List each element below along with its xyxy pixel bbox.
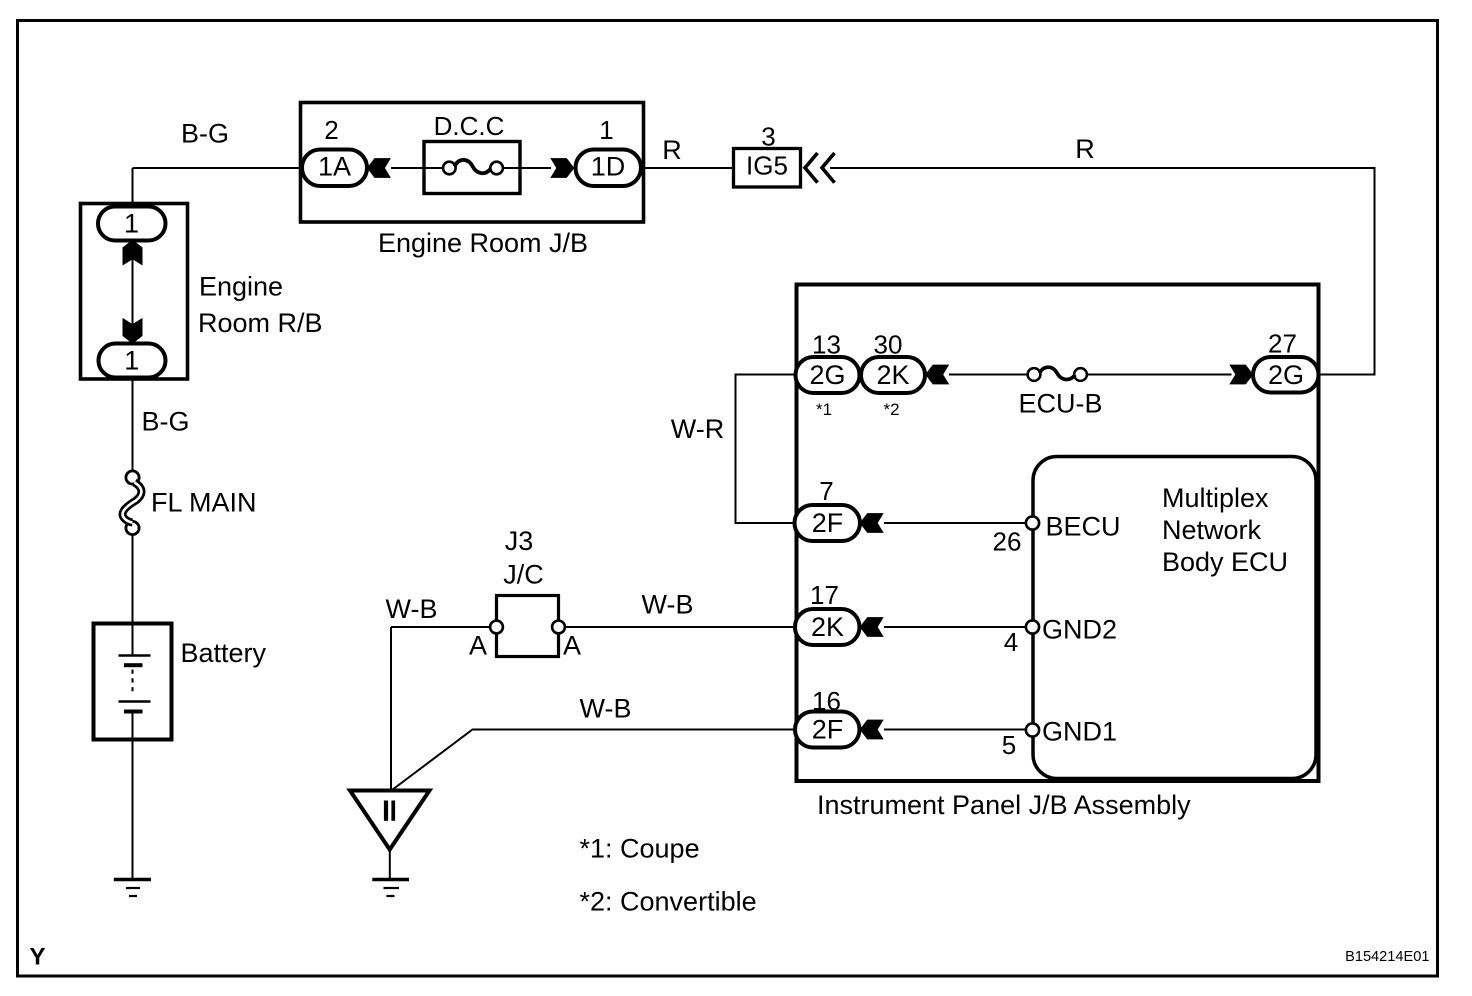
svg-text:1A: 1A xyxy=(318,152,351,182)
battery xyxy=(94,624,172,740)
ground symbol right xyxy=(372,880,409,897)
wire fuse to arrow xyxy=(1087,374,1232,376)
connector IG5 xyxy=(734,149,801,188)
wire 2K to GND2 xyxy=(884,626,1026,628)
svg-text:W-R: W-R xyxy=(671,414,725,444)
arrow up xyxy=(123,240,143,266)
wire B-G from R/B to FL MAIN xyxy=(132,377,134,471)
connector 1A xyxy=(302,150,367,187)
svg-text:Multiplex: Multiplex xyxy=(1162,483,1269,513)
wire from J/C down to ground triangle xyxy=(390,627,392,790)
svg-text:17: 17 xyxy=(810,580,839,610)
wire W-R from 2G to 2F xyxy=(736,375,797,524)
svg-text:*1: *1 xyxy=(816,400,832,419)
svg-text:Engine: Engine xyxy=(199,272,283,302)
wire battery to ground xyxy=(132,713,134,878)
wire 2F to GND1 xyxy=(884,729,1026,731)
svg-text:GND2: GND2 xyxy=(1042,615,1117,645)
svg-text:2F: 2F xyxy=(812,508,844,538)
arrow into 1A xyxy=(367,158,391,178)
svg-text:W-B: W-B xyxy=(386,594,438,624)
connector 1 top of R/B xyxy=(98,207,166,241)
arrow down xyxy=(123,318,143,344)
connector 1D xyxy=(576,150,642,187)
svg-text:A: A xyxy=(469,631,487,661)
wire to fuse ECU-B xyxy=(949,374,1028,376)
svg-text:1: 1 xyxy=(124,346,139,376)
svg-text:2K: 2K xyxy=(811,612,844,642)
wire fuse to arrow xyxy=(503,167,551,169)
Instrument Panel J/B box xyxy=(797,285,1319,782)
svg-text:Room R/B: Room R/B xyxy=(198,308,323,338)
pin GND1 xyxy=(1026,723,1039,736)
fusible link FL MAIN xyxy=(123,471,142,535)
svg-text:2F: 2F xyxy=(812,715,844,745)
svg-text:26: 26 xyxy=(993,527,1022,557)
svg-text:R: R xyxy=(1075,134,1095,164)
svg-text:2: 2 xyxy=(324,115,338,145)
wire W-B J/C to 2K xyxy=(565,626,796,628)
svg-text:Instrument Panel J/B Assembly: Instrument Panel J/B Assembly xyxy=(817,790,1191,820)
svg-text:*2: Convertible: *2: Convertible xyxy=(580,887,757,917)
arrow into 2G pin 27 xyxy=(1229,365,1253,385)
ground battery xyxy=(114,880,151,897)
wire 2F to BECU xyxy=(884,522,1026,524)
pin BECU xyxy=(1026,516,1039,529)
wire R from IG5 to 2G xyxy=(830,168,1375,375)
svg-text:A: A xyxy=(563,631,581,661)
wire inside R/B xyxy=(132,239,134,344)
wire FL MAIN to battery xyxy=(132,535,134,655)
svg-text:Engine Room J/B: Engine Room J/B xyxy=(378,228,588,258)
svg-text:FL MAIN: FL MAIN xyxy=(151,488,257,518)
wire vertical into Engine Room R/B xyxy=(132,168,134,208)
arrow out of 2K xyxy=(860,617,884,637)
junction connector J3 J/C xyxy=(490,596,565,657)
connector 2K pin 30 xyxy=(861,357,925,393)
chevrons at IG5 xyxy=(805,153,835,183)
Engine Room J/B box xyxy=(301,103,644,223)
wire W-B left to J/C xyxy=(391,626,490,628)
svg-text:IG5: IG5 xyxy=(746,151,788,181)
svg-text:J/C: J/C xyxy=(503,560,544,590)
svg-text:2G: 2G xyxy=(809,360,845,390)
svg-text:Body ECU: Body ECU xyxy=(1162,547,1288,577)
svg-text:W-B: W-B xyxy=(580,694,632,724)
connector 2F pin 16 xyxy=(795,712,860,748)
svg-text:Battery: Battery xyxy=(181,638,267,668)
svg-text:1: 1 xyxy=(599,115,613,145)
svg-text:B-G: B-G xyxy=(181,119,229,149)
wire triangle to ground xyxy=(389,849,391,878)
wire W-B from 2F to ground triangle xyxy=(392,730,796,791)
svg-text:J3: J3 xyxy=(505,526,534,556)
svg-text:B154214E01: B154214E01 xyxy=(1345,949,1429,965)
svg-text:GND1: GND1 xyxy=(1042,717,1117,747)
Engine Room R/B box xyxy=(81,204,188,380)
connector 2F pin 7 xyxy=(795,505,861,541)
connector 2G pin 13 xyxy=(796,357,860,393)
svg-text:27: 27 xyxy=(1268,329,1297,359)
arrow out of 2F xyxy=(860,513,884,533)
arrow into 2K xyxy=(925,365,949,385)
svg-text:1D: 1D xyxy=(591,152,626,182)
svg-text:D.C.C: D.C.C xyxy=(434,111,505,141)
svg-text:BECU: BECU xyxy=(1046,512,1121,542)
connector 1 bottom of R/B xyxy=(99,344,166,378)
svg-text:Y: Y xyxy=(30,944,46,971)
svg-text:*2: *2 xyxy=(883,400,899,419)
svg-text:B-G: B-G xyxy=(141,407,189,437)
svg-text:7: 7 xyxy=(819,476,833,506)
svg-text:5: 5 xyxy=(1002,730,1016,760)
ground triangle II xyxy=(350,791,430,850)
wire arrow to fuse D.C.C xyxy=(391,167,443,169)
svg-text:*1: Coupe: *1: Coupe xyxy=(580,834,700,864)
connector 2G pin 27 xyxy=(1253,357,1319,393)
svg-text:2K: 2K xyxy=(876,360,909,390)
svg-text:W-B: W-B xyxy=(642,590,694,620)
svg-text:4: 4 xyxy=(1004,627,1018,657)
Multiplex Network Body ECU box xyxy=(1033,457,1316,779)
arrow into 1D xyxy=(550,158,574,178)
wire R from 1D to IG5 xyxy=(641,167,733,169)
svg-text:R: R xyxy=(662,135,682,165)
fuse D.C.C xyxy=(424,142,520,194)
svg-text:ECU-B: ECU-B xyxy=(1018,389,1102,419)
svg-text:Network: Network xyxy=(1162,515,1262,545)
pin GND2 xyxy=(1026,620,1039,633)
wire B-G from battery node to connector 1A xyxy=(133,167,304,169)
fuse ECU-B xyxy=(1028,367,1087,381)
svg-text:1: 1 xyxy=(124,209,139,239)
connector 2K pin 17 xyxy=(795,609,860,645)
arrow out of 2F pin 16 xyxy=(860,720,884,740)
svg-text:2G: 2G xyxy=(1268,360,1304,390)
